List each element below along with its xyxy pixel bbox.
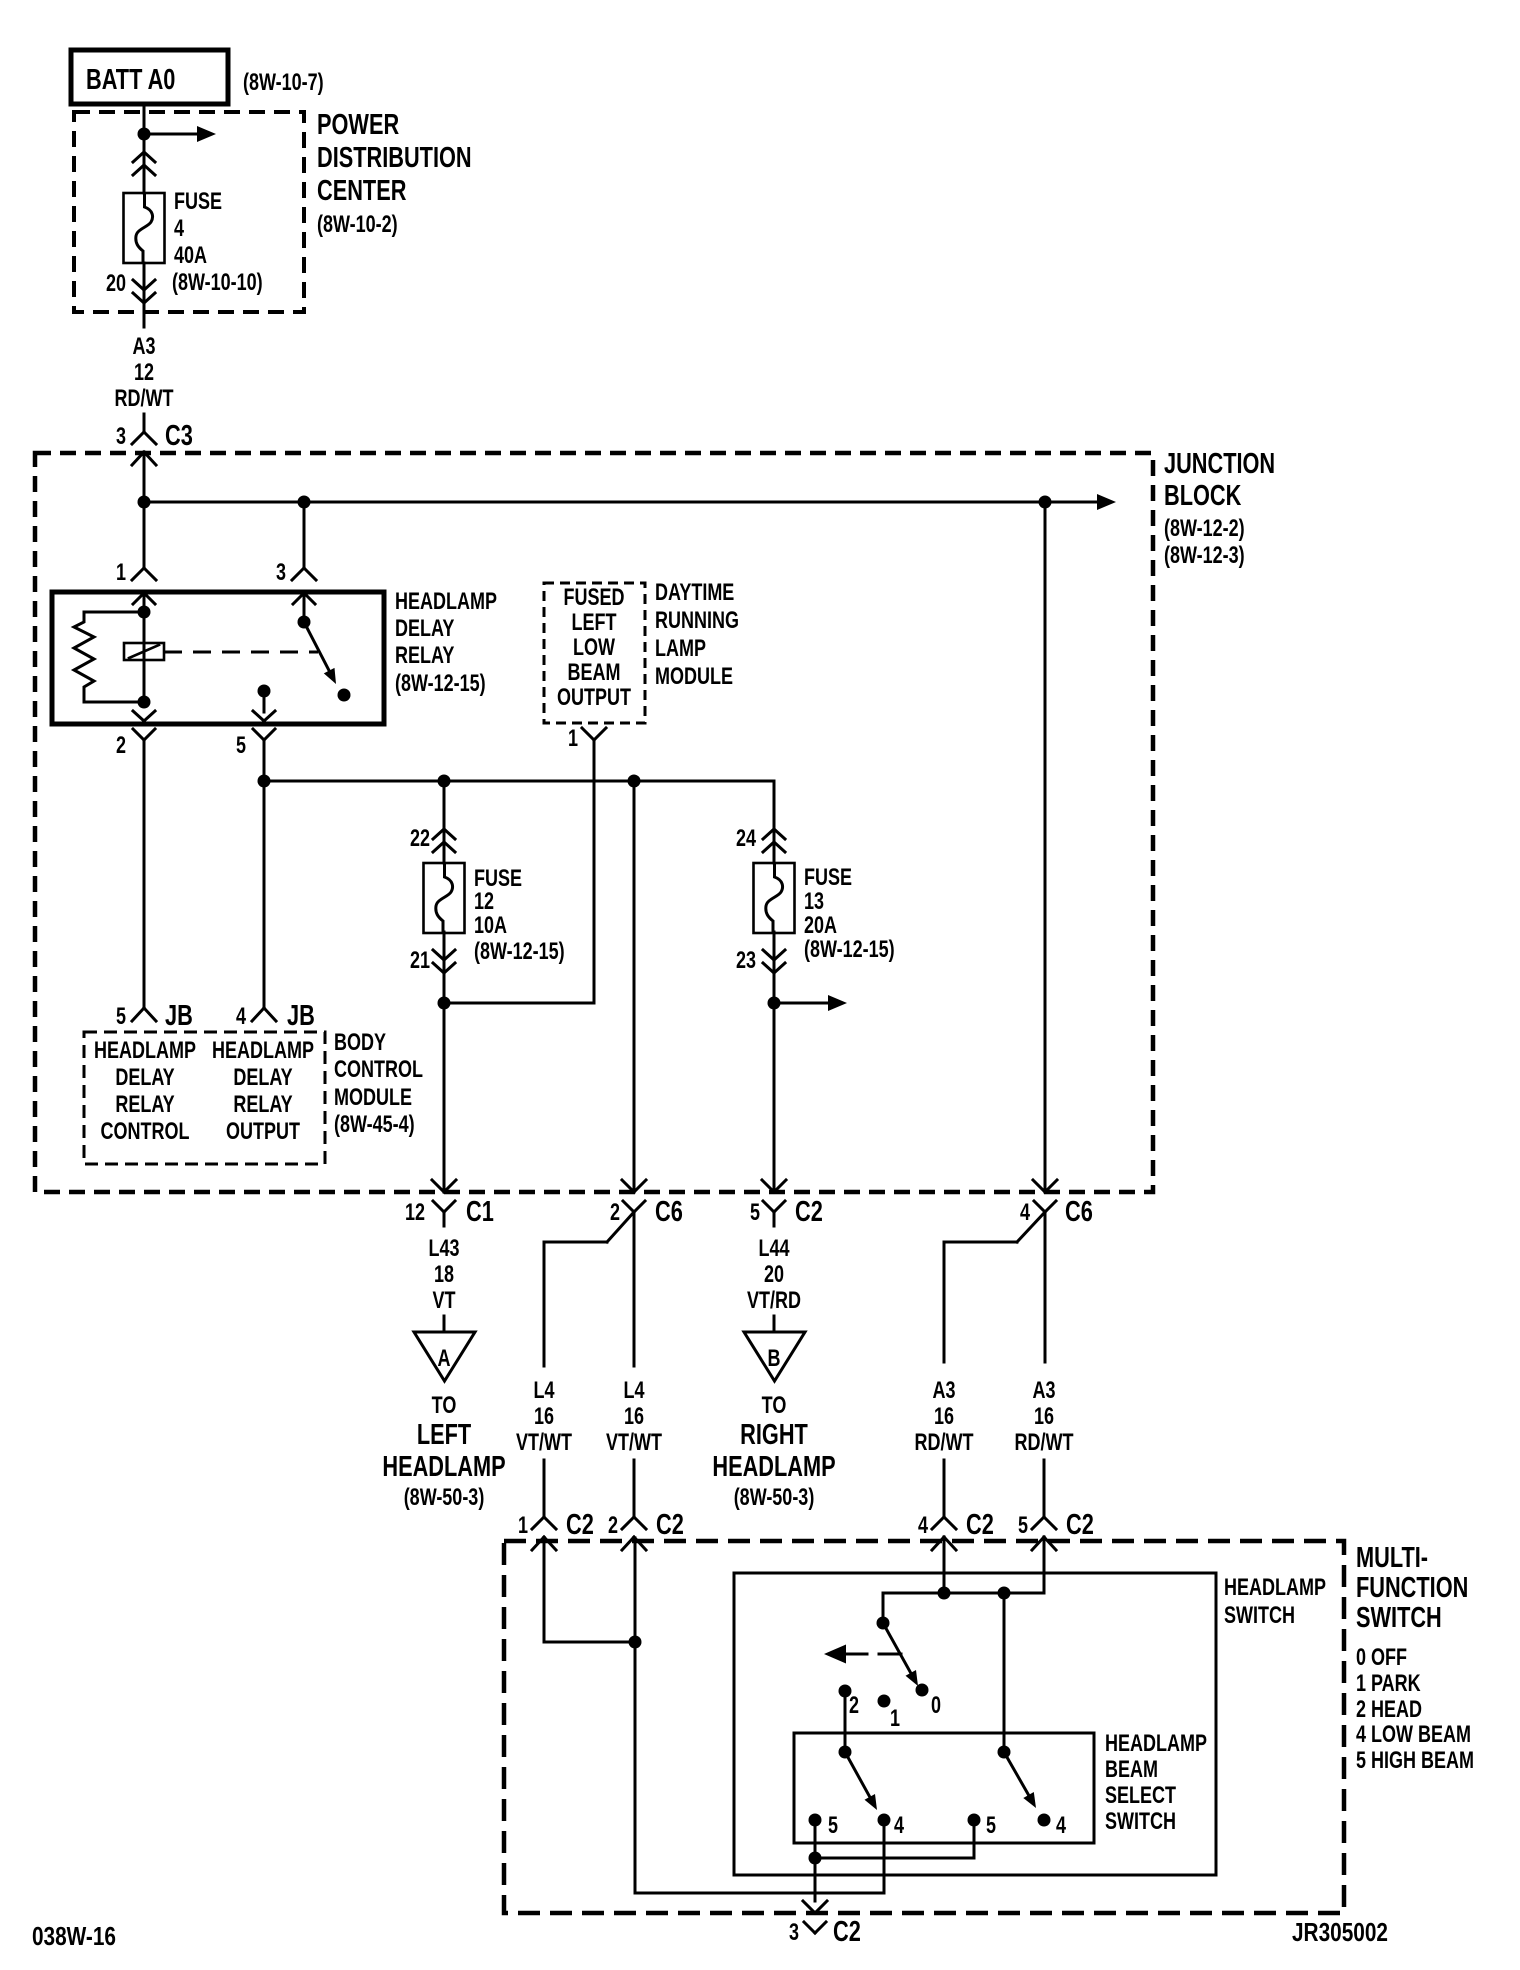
contact 0 dot: [916, 1684, 929, 1697]
svg-text:DISTRIBUTION: DISTRIBUTION: [317, 142, 472, 174]
node splice at relay output bus: [258, 775, 271, 788]
svg-text:0 OFF: 0 OFF: [1356, 1645, 1407, 1671]
svg-text:FUNCTION: FUNCTION: [1356, 1572, 1468, 1604]
svg-text:SWITCH: SWITCH: [1224, 1603, 1295, 1629]
node coil bottom: [138, 696, 151, 709]
svg-text:C2: C2: [833, 1916, 861, 1948]
svg-text:3: 3: [276, 560, 286, 586]
splice triangle A: [414, 1332, 475, 1381]
svg-text:(8W-50-3): (8W-50-3): [404, 1485, 485, 1511]
relay switch contact dot: [338, 689, 351, 702]
BCM pin 4 JB fork: [252, 1008, 264, 1021]
svg-text:JB: JB: [165, 1000, 193, 1032]
node DRL branch tap: [628, 775, 641, 788]
svg-text:HEADLAMP: HEADLAMP: [212, 1038, 314, 1064]
svg-text:HEADLAMP: HEADLAMP: [712, 1451, 835, 1483]
wire 4 contact to left headlamp branch: [883, 1820, 886, 1893]
svg-text:RD/WT: RD/WT: [115, 386, 174, 412]
connector C2 pin 1 entry: [532, 1517, 544, 1529]
node fuse 13 output splice: [768, 997, 781, 1010]
headlamp switch blade: [883, 1623, 913, 1677]
svg-text:FUSE: FUSE: [174, 189, 222, 215]
wire fuse 13 to C2: [773, 932, 776, 1192]
beam select left blade: [845, 1752, 872, 1801]
svg-text:L4: L4: [623, 1378, 644, 1404]
svg-text:C2: C2: [966, 1509, 994, 1541]
svg-text:16: 16: [934, 1404, 954, 1430]
connector C1 pin 12 exit: [432, 1180, 444, 1192]
svg-text:HEADLAMP: HEADLAMP: [382, 1451, 505, 1483]
svg-text:3: 3: [116, 424, 126, 450]
svg-text:DELAY: DELAY: [395, 616, 454, 642]
svg-text:4: 4: [1056, 1813, 1066, 1839]
svg-text:5 HIGH BEAM: 5 HIGH BEAM: [1356, 1748, 1474, 1774]
svg-text:5: 5: [236, 733, 246, 759]
svg-text:(8W-10-2): (8W-10-2): [317, 212, 398, 238]
svg-text:16: 16: [534, 1404, 554, 1430]
svg-text:RELAY: RELAY: [233, 1092, 292, 1118]
svg-text:TO: TO: [762, 1393, 787, 1419]
svg-text:C1: C1: [466, 1196, 494, 1228]
svg-text:RELAY: RELAY: [395, 643, 454, 669]
svg-text:VT: VT: [432, 1288, 455, 1314]
svg-text:12: 12: [474, 889, 494, 915]
svg-text:1: 1: [116, 560, 126, 586]
svg-text:4: 4: [174, 216, 184, 242]
svg-text:B: B: [768, 1346, 781, 1372]
svg-text:RIGHT: RIGHT: [740, 1419, 808, 1451]
beam select left pivot dot: [839, 1746, 852, 1759]
svg-text:VT/WT: VT/WT: [516, 1430, 572, 1456]
node feed at beam select wire: [998, 1587, 1011, 1600]
svg-text:2: 2: [116, 733, 126, 759]
connector C2 pin 4 entry: [932, 1517, 944, 1529]
svg-text:2: 2: [608, 1513, 618, 1539]
svg-text:5: 5: [828, 1813, 838, 1839]
svg-text:5: 5: [986, 1813, 996, 1839]
node fuse12/DRL splice: [438, 997, 451, 1010]
node bus at right drop: [1039, 496, 1052, 509]
dashed actuator link: [164, 651, 318, 654]
svg-text:C3: C3: [165, 420, 193, 452]
relay coil symbol: [124, 643, 164, 660]
relay pin 2 exit: [133, 711, 144, 721]
arrow bus continues right: [1045, 501, 1100, 504]
wire splice to DRL pin 1: [444, 1002, 594, 1005]
svg-text:(8W-12-15): (8W-12-15): [474, 939, 565, 965]
headlamp switch pivot dot: [877, 1617, 890, 1630]
svg-text:MODULE: MODULE: [334, 1085, 412, 1111]
svg-text:16: 16: [624, 1404, 644, 1430]
contact 2 dot: [839, 1685, 852, 1698]
pin 21 chevrons: [433, 950, 444, 960]
connector C2 pin 5 entry: [1032, 1517, 1044, 1529]
svg-text:(8W-10-10): (8W-10-10): [172, 270, 263, 296]
svg-text:(8W-10-7): (8W-10-7): [243, 70, 324, 96]
headlamp beam select switch box: [794, 1733, 1094, 1843]
wire resume to 1 C2: [543, 1460, 546, 1517]
svg-text:HEADLAMP: HEADLAMP: [1224, 1575, 1326, 1601]
relay pin 1: [132, 568, 144, 580]
pin 24 chevrons: [763, 829, 774, 839]
svg-text:1 PARK: 1 PARK: [1356, 1671, 1421, 1697]
svg-text:4: 4: [918, 1513, 928, 1539]
svg-text:RD/WT: RD/WT: [915, 1430, 974, 1456]
svg-text:CENTER: CENTER: [317, 175, 406, 207]
node high beam splice: [809, 1852, 822, 1865]
wire 1 C2 branch down: [543, 1538, 546, 1642]
fuse F13 20A: [754, 863, 795, 933]
wire tap down to fuse 12: [443, 781, 446, 863]
wire feed bar: [883, 1592, 1044, 1595]
svg-text:OUTPUT: OUTPUT: [226, 1119, 300, 1145]
fuse F4 40A: [124, 193, 165, 263]
multi-function switch dashed box: [504, 1541, 1344, 1913]
svg-text:SWITCH: SWITCH: [1105, 1809, 1176, 1835]
wire bus to relay pin 3: [303, 502, 306, 568]
node coil top: [138, 606, 151, 619]
svg-text:5: 5: [750, 1200, 760, 1226]
svg-text:A: A: [438, 1346, 451, 1372]
svg-text:RELAY: RELAY: [115, 1092, 174, 1118]
node bus at relay pin 1 wire: [138, 496, 151, 509]
headlamp delay relay box: [52, 592, 384, 724]
pin 23 chevrons: [763, 950, 774, 960]
relay switch blade: [304, 622, 331, 675]
svg-text:HEADLAMP: HEADLAMP: [395, 589, 497, 615]
svg-text:4 LOW BEAM: 4 LOW BEAM: [1356, 1722, 1471, 1748]
wire C6 pin 2 straight down: [633, 1227, 636, 1366]
connector C2 pin 3 exit: [803, 1901, 815, 1913]
node bus at relay pin 3 wire: [298, 496, 311, 509]
contact 5 right dot: [968, 1814, 981, 1827]
svg-text:BEAM: BEAM: [568, 660, 621, 686]
wire relay pin 5 down: [263, 757, 266, 1008]
svg-text:18: 18: [434, 1262, 454, 1288]
svg-text:A3: A3: [1032, 1378, 1055, 1404]
connector double chevron out of PDC: [133, 280, 144, 290]
svg-text:LAMP: LAMP: [655, 636, 706, 662]
DRL module pin 1: [582, 728, 594, 740]
svg-text:22: 22: [410, 826, 430, 852]
wire to splice A: [443, 1316, 446, 1332]
svg-text:21: 21: [410, 948, 430, 974]
svg-text:40A: 40A: [174, 243, 207, 269]
wire resume to 4 C2: [943, 1460, 946, 1517]
wire C6 pin 2 diagonal to left branch: [607, 1212, 634, 1242]
svg-text:20: 20: [106, 271, 126, 297]
relay switch common: [303, 593, 306, 622]
svg-text:1: 1: [568, 726, 578, 752]
svg-text:RUNNING: RUNNING: [655, 608, 739, 634]
resistor relay suppression: [84, 611, 144, 614]
svg-text:0: 0: [931, 1693, 941, 1719]
svg-text:(8W-45-4): (8W-45-4): [334, 1112, 415, 1138]
wire corner to headlamp switch pivot: [882, 1593, 885, 1623]
svg-text:(8W-12-15): (8W-12-15): [804, 937, 895, 963]
svg-text:MODULE: MODULE: [655, 664, 733, 690]
svg-text:2: 2: [849, 1693, 859, 1719]
svg-text:1: 1: [518, 1513, 528, 1539]
svg-text:HEADLAMP: HEADLAMP: [94, 1038, 196, 1064]
svg-text:(8W-12-15): (8W-12-15): [395, 671, 486, 697]
node battery feed junction: [138, 128, 151, 141]
svg-text:SWITCH: SWITCH: [1356, 1602, 1442, 1634]
wire fuse 4 to connector C3: [143, 263, 146, 327]
svg-text:MULTI-: MULTI-: [1356, 1542, 1428, 1574]
wire branch down to 4 C2: [943, 1242, 946, 1362]
splice triangle B: [744, 1332, 805, 1381]
headlamp switch wiper arrow: [824, 1645, 846, 1664]
svg-text:L43: L43: [428, 1236, 459, 1262]
svg-text:JUNCTION: JUNCTION: [1164, 448, 1275, 480]
wire fuse 12 to C1: [443, 932, 446, 1192]
svg-text:RD/WT: RD/WT: [1015, 1430, 1074, 1456]
svg-text:20A: 20A: [804, 913, 837, 939]
wire 5 C2 into headlamp switch: [1043, 1537, 1046, 1592]
svg-text:C2: C2: [656, 1509, 684, 1541]
svg-text:L44: L44: [758, 1236, 789, 1262]
svg-text:5: 5: [1018, 1513, 1028, 1539]
wire bus to fuse 13: [773, 781, 776, 863]
svg-text:2: 2: [610, 1200, 620, 1226]
svg-text:C6: C6: [1065, 1196, 1093, 1228]
svg-text:C2: C2: [1066, 1509, 1094, 1541]
connector C2 pin 5 exit: [762, 1180, 774, 1192]
svg-text:A3: A3: [132, 334, 155, 360]
svg-text:OUTPUT: OUTPUT: [557, 685, 631, 711]
connector double chevron into PDC: [133, 152, 144, 162]
node fuse 12 tap: [438, 775, 451, 788]
svg-text:3: 3: [789, 1920, 799, 1946]
wire C3 down to relay pin 1: [143, 452, 146, 568]
svg-text:1: 1: [890, 1706, 900, 1732]
svg-text:12: 12: [134, 360, 154, 386]
contact 4 right dot: [1038, 1814, 1051, 1827]
beam select right blade: [1004, 1752, 1031, 1799]
svg-text:4: 4: [1020, 1200, 1030, 1226]
beam select right pivot dot: [998, 1746, 1011, 1759]
node feed at low beam wire: [938, 1587, 951, 1600]
svg-text:24: 24: [736, 826, 756, 852]
svg-text:5: 5: [116, 1004, 126, 1030]
contact 1 dot: [878, 1695, 891, 1708]
svg-text:(8W-50-3): (8W-50-3): [734, 1485, 815, 1511]
wire 2 C2 branch down: [634, 1538, 637, 1893]
svg-text:FUSED: FUSED: [564, 585, 625, 611]
svg-text:FUSE: FUSE: [804, 865, 852, 891]
svg-text:2 HEAD: 2 HEAD: [1356, 1697, 1422, 1723]
node left branch splice: [629, 1636, 642, 1649]
svg-text:A3: A3: [932, 1378, 955, 1404]
relay pin 3: [292, 568, 304, 580]
svg-text:13: 13: [804, 889, 824, 915]
wire C6 pin 4 diagonal to left branch: [1017, 1212, 1045, 1242]
daytime running lamp module dashed box: [544, 583, 645, 723]
svg-text:C6: C6: [655, 1196, 683, 1228]
svg-text:C2: C2: [795, 1196, 823, 1228]
wire BATT A0 to fuse 4: [143, 104, 146, 193]
svg-text:(8W-12-2): (8W-12-2): [1164, 516, 1245, 542]
connector C3 pin 3 into junction block: [132, 432, 144, 444]
svg-text:JR305002: JR305002: [1292, 1918, 1388, 1947]
svg-text:POWER: POWER: [317, 109, 399, 141]
wire right bus drop to C6 pin 4: [1044, 502, 1047, 1192]
pin 22 chevrons: [433, 829, 444, 839]
svg-text:JB: JB: [287, 1000, 315, 1032]
wire relay coil vertical: [143, 593, 146, 702]
wire feed to beam select right pivot: [1003, 1593, 1006, 1752]
svg-text:BEAM: BEAM: [1105, 1757, 1158, 1783]
svg-text:CONTROL: CONTROL: [101, 1119, 190, 1145]
svg-text:038W-16: 038W-16: [32, 1922, 116, 1951]
wire left branch down: [543, 1242, 546, 1366]
contact 4 left dot: [878, 1814, 891, 1827]
arrow fuse 13 feed to other circuits: [774, 1002, 831, 1005]
wire DRL tap down to C6 pin 2: [633, 781, 636, 1192]
svg-text:C2: C2: [566, 1509, 594, 1541]
contact 5 left dot: [809, 1814, 822, 1827]
body control module dashed box: [84, 1032, 325, 1164]
wire C6 pin 4 straight down: [1044, 1227, 1047, 1362]
svg-text:12: 12: [405, 1200, 425, 1226]
wire resume to 5 C2: [1043, 1460, 1046, 1517]
wire high beam output down: [814, 1858, 817, 1901]
fuse F12 10A: [424, 863, 465, 933]
svg-text:HEADLAMP: HEADLAMP: [1105, 1731, 1207, 1757]
svg-text:LEFT: LEFT: [417, 1419, 472, 1451]
svg-text:BLOCK: BLOCK: [1164, 480, 1242, 512]
svg-text:L4: L4: [533, 1378, 554, 1404]
svg-text:16: 16: [1034, 1404, 1054, 1430]
svg-text:LEFT: LEFT: [572, 610, 617, 636]
svg-text:20: 20: [764, 1262, 784, 1288]
wire resume to 2 C2: [633, 1460, 636, 1517]
svg-text:VT/WT: VT/WT: [606, 1430, 662, 1456]
svg-text:BODY: BODY: [334, 1030, 386, 1056]
svg-text:TO: TO: [432, 1393, 457, 1419]
svg-text:VT/RD: VT/RD: [747, 1288, 801, 1314]
svg-text:4: 4: [236, 1004, 246, 1030]
svg-text:DELAY: DELAY: [233, 1065, 292, 1091]
svg-text:DELAY: DELAY: [115, 1065, 174, 1091]
power distribution center box: [74, 112, 304, 312]
splice bus wire: [264, 780, 774, 783]
svg-text:LOW: LOW: [573, 635, 615, 661]
svg-text:CONTROL: CONTROL: [334, 1057, 423, 1083]
wiper link dash: [879, 1653, 901, 1656]
arrow feed to other circuits: [144, 133, 200, 136]
relay pin 5 contact: [258, 685, 271, 698]
junction block dashed box: [35, 453, 1153, 1192]
wire relay pin 2 to BCM pin 5: [143, 757, 146, 1008]
connector C6 pin 2 exit: [622, 1180, 634, 1192]
svg-text:BATT A0: BATT A0: [86, 64, 175, 96]
svg-text:23: 23: [736, 948, 756, 974]
wire 5 contacts tie: [814, 1820, 817, 1858]
svg-text:DAYTIME: DAYTIME: [655, 580, 734, 606]
wire contact 2 to beam select pivot: [844, 1691, 847, 1752]
svg-text:(8W-12-3): (8W-12-3): [1164, 543, 1245, 569]
battery feed box BATT A0: [71, 50, 228, 104]
connector C2 pin 2 entry: [622, 1517, 634, 1529]
headlamp switch box: [734, 1573, 1216, 1875]
svg-text:10A: 10A: [474, 913, 507, 939]
svg-text:4: 4: [894, 1813, 904, 1839]
BCM pin 5 JB fork: [132, 1008, 144, 1021]
relay pin 5 exit: [253, 711, 264, 721]
wire to splice B: [773, 1316, 776, 1332]
wire 4 C2 into headlamp switch: [943, 1537, 946, 1593]
connector C6 pin 4 exit: [1033, 1180, 1045, 1192]
bus wire across junction block: [144, 501, 1045, 504]
svg-text:SELECT: SELECT: [1105, 1783, 1176, 1809]
